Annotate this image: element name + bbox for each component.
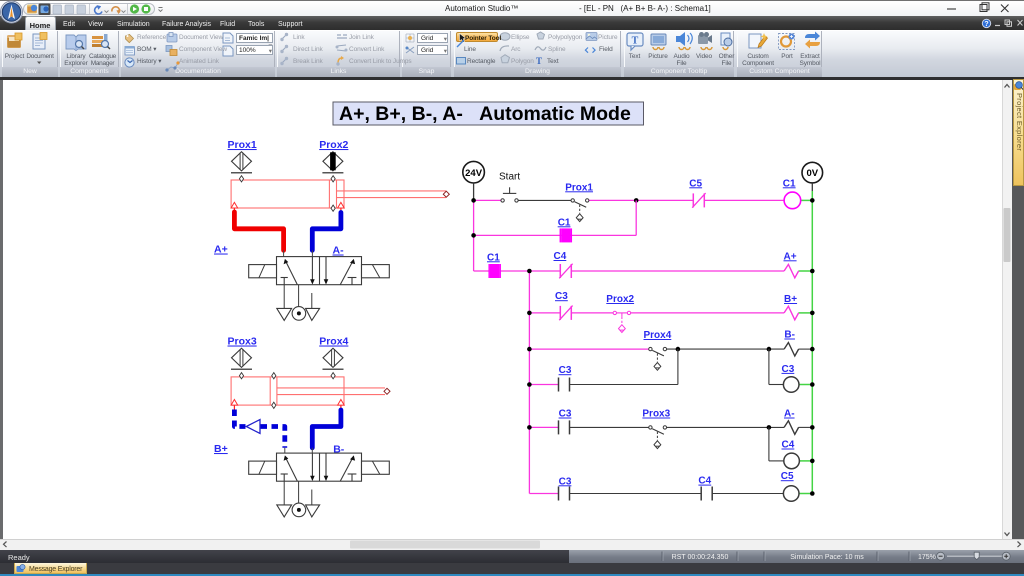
label Prox2 (cylinder A right sensor) [319,139,348,151]
contact C4 (NC, energized) [559,264,572,279]
label C1 (rung 1 coil) [783,178,796,189]
label Prox1 (rung 1) [565,182,593,193]
svg-text:24V: 24V [465,168,483,179]
solenoid B- (de-energized) [784,343,799,357]
label C3 (rung 9 contact) [559,476,572,487]
solenoid A+ (energized) [784,264,799,278]
svg-text:A+: A+ [784,251,797,262]
valve A right exhaust [306,308,320,320]
svg-text:Prox4: Prox4 [644,330,672,341]
svg-text:A+, B+, B-, A- Automatic Mod: A+, B+, B-, A- Automatic Mode [339,103,631,125]
svg-text:Prox2: Prox2 [606,294,634,305]
wire: blue dashed line cylinder B cap-side [234,410,284,448]
export file icon [223,33,233,43]
cylinder B sensor port markers [239,373,335,409]
svg-text:C5: C5 [781,471,794,482]
svg-text:RST 00:00:24.350: RST 00:00:24.350 [672,554,729,561]
svg-text:C1: C1 [487,252,500,263]
wire: blue line cylinder A rod-side [312,213,341,251]
C4 coil branch [769,427,812,461]
wire: red pressure line cylinder A cap-side [234,212,283,250]
svg-text:Prox3: Prox3 [228,336,257,348]
svg-text:B+: B+ [214,443,228,455]
label B+ (valve B left solenoid) [214,443,228,455]
left sub rail (live) [528,271,530,494]
node dots rung5 [527,347,814,352]
svg-text:Prox4: Prox4 [319,336,348,348]
svg-text:Simulation Pace: 10 ms: Simulation Pace: 10 ms [790,554,864,561]
label A+ (solenoid) [784,251,797,262]
svg-text:Prox1: Prox1 [565,182,593,193]
svg-text:C1: C1 [783,178,796,189]
wire: blue line cylinder B rod-side [312,410,341,448]
label Prox2 (rung 4) [606,294,634,305]
proximity sensor Prox1 symbol [231,152,252,173]
New: Project icon [7,35,21,48]
5/2 directional valve B [249,453,390,481]
contact C3 (NO, open) [559,378,570,392]
label C3 (rung 6 contact) [559,365,572,376]
logo [0,0,26,28]
svg-text:Start: Start [499,172,520,183]
valve A left exhaust [277,308,292,320]
BOM icon [125,47,135,55]
0V supply node [802,162,823,191]
svg-text:A+: A+ [214,244,228,256]
left power rail (live) [473,200,475,271]
node dots rung6 [527,382,814,387]
contact Prox3 (NO, open) [649,426,667,449]
node dot rung9 rail [810,491,815,496]
contact C1 (NO, closed/energized) [489,264,500,278]
label Prox4 (cylinder B right sensor) [319,336,348,348]
label C3 (rung 7 contact) [559,409,572,420]
node dot rung2 [471,233,476,238]
label B- (solenoid) [784,330,795,341]
cylinder B (double-acting, mid/retracted) [231,377,385,405]
contact Prox2 (NO, closed) [613,311,631,332]
cylinder A rod end connector [443,191,449,197]
Document View icon [167,34,177,42]
coil C5 (de-energized) [783,486,799,502]
New: Document icon [33,34,45,49]
right 0V rail [811,191,813,494]
rung 9 wires [529,493,812,495]
schema title text box [333,102,644,125]
svg-text:Prox2: Prox2 [319,139,348,151]
node dots rung7 [527,425,814,430]
contact C1 (NO, closed/energized) [560,228,571,242]
label Start [499,172,520,183]
svg-text:C4: C4 [782,440,795,451]
solenoid A- (de-energized) [784,421,799,435]
svg-text:0V: 0V [806,168,818,179]
wire stubs valve A top [284,250,313,256]
cylinder A pneumatic ports [231,202,344,213]
label A- (solenoid) [784,409,795,420]
valve A bottom port stems [284,285,312,309]
label C4 (coil) [782,440,795,451]
svg-text:Prox1: Prox1 [228,139,257,151]
label C1 (seal-in contact) [558,217,571,228]
cylinder B rod end connector [384,388,390,394]
24V supply node [463,161,485,200]
label C3 (rung 4 NC) [555,291,568,302]
label C3 (coil) [782,364,795,375]
contact C3 (NO, open) [559,420,570,434]
contact C5 (NC, energized) [692,193,705,208]
svg-text:C3: C3 [559,409,572,420]
label B- (valve B right solenoid) [333,444,345,456]
History icon [125,58,134,67]
node dots rung3 [527,269,814,274]
contact C3 (NC, energized) [559,306,572,321]
rung 7 wires [529,426,812,428]
svg-text:C3: C3 [555,291,568,302]
svg-text:A-: A- [333,245,345,257]
rung 1 wires [474,199,813,201]
flow control valve on B line [246,420,260,434]
svg-text:C1: C1 [558,217,571,228]
rung 3 wires [474,270,813,272]
svg-text:C3: C3 [782,364,795,375]
Components: Catalogue Manager [92,36,103,39]
coil C3 (de-energized) [783,377,799,393]
cylinder A sensor port markers [239,176,335,212]
label C5 (coil) [781,471,794,482]
Component View icon [166,46,172,52]
rung 5 wires [529,348,812,350]
valve B left exhaust [277,505,292,517]
rung 6 wires [529,349,678,384]
contact C4 (NO, open) [701,487,712,501]
proximity sensor Prox3 symbol [231,348,252,369]
valve B pressure source [292,503,306,517]
proximity sensor Prox2 symbol [322,152,343,173]
5/2 directional valve A [249,257,390,285]
valve A pressure source [292,307,306,321]
wire stubs valve B top [285,448,313,453]
label Prox3 (cylinder B left sensor) [228,336,257,348]
label C5 (rung 1 NC) [689,178,702,189]
rung 2 wire [474,234,637,236]
cylinder A (double-acting, extended) [231,180,446,208]
svg-text:A-: A- [784,409,795,420]
cylinder B pneumatic ports [231,400,344,411]
label Prox4 (rung 5) [644,330,672,341]
zoom file icon [223,46,233,56]
seal-in branch vertical [635,200,637,235]
contact C3 (NO, open) [559,487,570,501]
label A+ (valve A left solenoid) [214,244,228,256]
solenoid B+ (energized) [784,306,799,320]
label Prox3 (rung 7) [642,409,670,420]
node: rung1/seal-in junction [634,198,639,203]
contact Prox4 (NO, open) [649,347,667,370]
Animated Link icon [167,63,178,70]
valve B right exhaust [306,505,320,517]
label C1 (rung 3 contact) [487,252,500,263]
label A- (valve A right solenoid) [333,245,345,257]
svg-text:B+: B+ [784,294,797,305]
rung 4 wires [529,312,812,314]
svg-text:C4: C4 [698,476,711,487]
coil C1 (energized) [784,192,801,209]
svg-text:C4: C4 [554,251,567,262]
coil C4 (de-energized) [784,453,800,469]
label C4 (rung 9 contact) [698,476,711,487]
proximity sensor Prox4 symbol [323,348,344,369]
svg-text:175%: 175% [918,554,936,561]
node dot C4 rail [810,459,815,464]
label C4 (rung 3 NC) [554,251,567,262]
Components: Library Explorer [66,35,86,51]
svg-text:Prox3: Prox3 [642,409,670,420]
valve B bottom port stems [284,481,312,505]
C3 coil branch [769,349,812,384]
node dots rung1 rails [471,198,814,203]
label B+ (solenoid) [784,294,797,305]
contact Prox1 (NO, open) [571,199,589,222]
node dots rung4 [527,311,814,316]
Reference icon (tag) [126,35,134,43]
label Prox1 (cylinder A left sensor) [228,139,257,151]
svg-text:C5: C5 [689,178,702,189]
svg-text:C3: C3 [559,365,572,376]
pushbutton Start (NO) [501,187,518,202]
svg-text:B-: B- [784,330,795,341]
svg-text:C3: C3 [559,476,572,487]
